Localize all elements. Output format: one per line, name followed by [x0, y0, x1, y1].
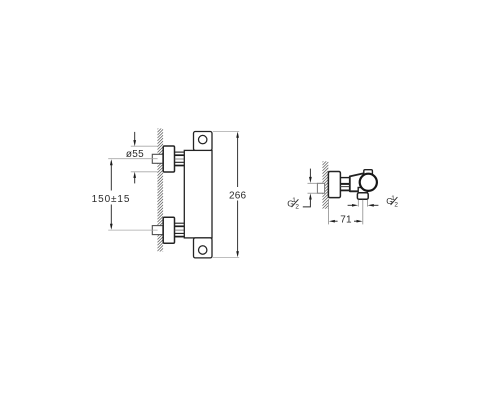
150+-15 dimension line — [110, 159, 113, 230]
left G1/2 label — [287, 197, 299, 211]
side G1/2 inlet extension lines — [308, 182, 318, 184]
o55 bottom arrow — [133, 172, 136, 184]
bottom inlet centerline extension — [108, 229, 157, 231]
top escutcheon (o55 flange) — [163, 146, 174, 172]
top inlet centerline extension — [108, 158, 157, 160]
266 bottom extension line — [213, 256, 239, 258]
bottom mounting hole — [199, 246, 207, 254]
bottom supply stub in wall — [152, 226, 163, 235]
outlet G1/2 left arrow — [348, 204, 359, 207]
svg-text:2: 2 — [394, 201, 398, 208]
outlet nut — [357, 193, 368, 200]
knob top button — [364, 170, 373, 176]
top mounting hole — [199, 135, 207, 143]
side escutcheon — [328, 172, 340, 198]
bottom mounting tab — [194, 238, 213, 258]
top supply stub in wall — [152, 154, 163, 163]
outlet centerline extension (to 71 dim) — [362, 200, 364, 225]
bottom inlet thread — [175, 223, 185, 236]
71 dimension line with arrows — [329, 220, 363, 223]
266 top extension line — [213, 131, 239, 133]
body cone (side profile) — [350, 173, 364, 191]
o55 top extension line — [131, 145, 158, 147]
bottom escutcheon — [163, 217, 174, 243]
right G1/2 label — [386, 195, 398, 209]
side supply stub in wall — [317, 183, 324, 193]
wall (side view, hatched section) — [322, 156, 328, 217]
outlet neck — [358, 188, 367, 194]
svg-text:71: 71 — [340, 214, 352, 225]
outlet G1/2 right arrow — [368, 204, 379, 207]
valve body (front) — [184, 150, 212, 238]
266 dimension line — [236, 132, 239, 258]
side G1/2 inlet top arrow — [309, 169, 312, 183]
control knob (side) — [360, 174, 377, 191]
side G1/2 inlet bottom arrow with leader — [303, 193, 312, 207]
o55 top arrow — [133, 132, 136, 146]
side inlet thread — [341, 178, 350, 191]
svg-text:150±15: 150±15 — [92, 194, 131, 205]
71 left extension line (wall face) — [328, 199, 330, 225]
svg-text:266: 266 — [229, 190, 247, 201]
svg-text:2: 2 — [295, 204, 299, 211]
outlet extension lines — [357, 200, 359, 207]
o55 bottom extension line — [131, 171, 158, 173]
wall (front view, hatched section) — [157, 124, 163, 260]
top inlet thread — [175, 152, 185, 165]
top mounting tab — [194, 132, 213, 151]
